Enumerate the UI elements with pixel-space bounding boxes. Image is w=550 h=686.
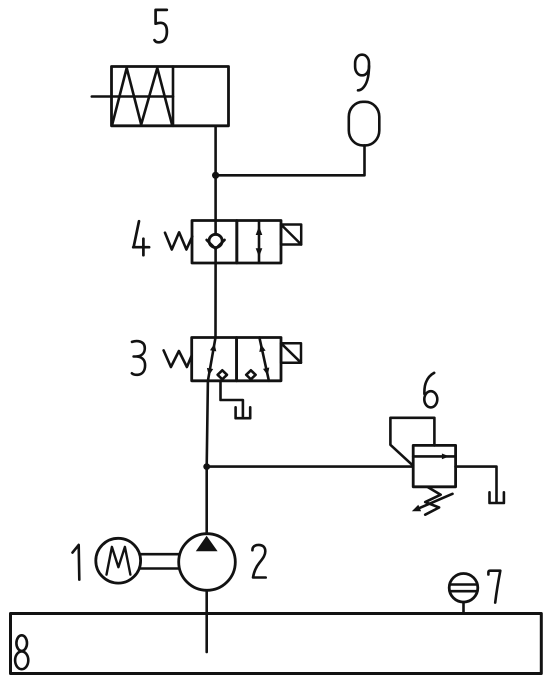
valve V4 right box (237, 221, 281, 264)
valve V3 right box (237, 338, 281, 381)
cylinder 5 return spring (112, 68, 172, 125)
label 3 (132, 341, 145, 375)
label 8 (15, 635, 28, 669)
relief valve 6 body (413, 445, 455, 486)
valve V4 spring (165, 232, 192, 249)
cylinder 5 piston (172, 67, 175, 126)
relief valve 6 drain cup (490, 492, 504, 503)
valve V3 drain line (221, 381, 243, 416)
wire accumulator stem (216, 145, 365, 175)
valve V3 solenoid (281, 343, 301, 363)
label 6 (424, 373, 437, 408)
wire to valve 4 (214, 175, 217, 220)
valve V3 left flow arrow (207, 338, 216, 381)
label 4 (133, 221, 149, 255)
motor 1 letter M (107, 547, 131, 575)
valve V3 left box (192, 338, 237, 381)
tank 8 (11, 614, 542, 674)
label 1 (73, 545, 80, 580)
valve V3 left orifice diamond (218, 370, 227, 379)
node junction lower (203, 463, 210, 470)
accumulator 9 (349, 102, 380, 146)
motor 1 (96, 538, 141, 583)
valve V4 check valve (207, 221, 225, 264)
wire cylinder port (214, 126, 217, 176)
valve V3 drain cup (236, 407, 251, 418)
wire valve4 to valve3 (214, 263, 217, 338)
valve V4 left box (192, 221, 237, 264)
label 2 (252, 545, 265, 578)
level gauge 7 (449, 574, 478, 614)
wire pump to tank (205, 590, 208, 652)
cylinder 5 piston rod (92, 95, 173, 98)
valve V3 spring (164, 350, 192, 367)
valve V3 right flow arrow (259, 338, 269, 381)
shaft coupling (141, 553, 179, 556)
wire junction to pump (205, 467, 208, 534)
wire valve3 to junction (207, 381, 208, 467)
relief valve 6 pilot line (390, 418, 434, 466)
node junction upper (212, 172, 219, 179)
cylinder 5 body (112, 67, 229, 126)
valve V3 right orifice diamond (246, 370, 255, 379)
valve V4 double arrow (256, 221, 263, 263)
pump 2 triangle (196, 536, 218, 552)
wire junction to relief valve (207, 465, 414, 468)
label 7 (488, 571, 500, 603)
relief valve 6 outlet (456, 467, 497, 502)
pump 2 (179, 534, 236, 591)
label 5 (155, 10, 167, 42)
relief valve 6 spring (425, 487, 441, 515)
valve V4 solenoid (281, 225, 301, 245)
label 9 (355, 55, 369, 91)
relief valve 6 adjustment arrow (412, 494, 453, 512)
relief valve 6 flow path arrow (413, 454, 455, 460)
